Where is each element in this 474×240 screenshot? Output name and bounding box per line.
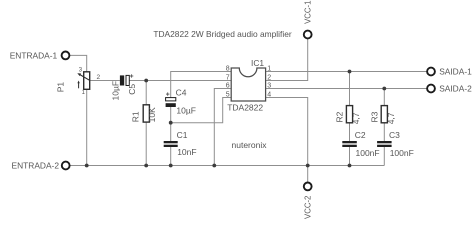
- svg-text:C2: C2: [355, 130, 366, 140]
- svg-text:5: 5: [226, 91, 230, 98]
- svg-text:6: 6: [226, 82, 230, 89]
- svg-text:TDA2822 2W Bridged audio ampli: TDA2822 2W Bridged audio amplifier: [153, 29, 291, 39]
- svg-text:4: 4: [267, 91, 271, 98]
- svg-text:C1: C1: [177, 130, 188, 140]
- svg-text:SAIDA-2: SAIDA-2: [439, 84, 472, 94]
- svg-text:100nF: 100nF: [390, 148, 414, 158]
- svg-text:VCC-2: VCC-2: [303, 196, 312, 219]
- svg-text:10µF: 10µF: [176, 105, 196, 115]
- svg-text:2: 2: [97, 74, 101, 81]
- svg-text:4,7: 4,7: [351, 112, 361, 124]
- svg-text:8: 8: [226, 65, 230, 72]
- svg-text:P1: P1: [55, 82, 65, 93]
- svg-text:4,7: 4,7: [386, 112, 396, 124]
- svg-text:2: 2: [267, 74, 271, 81]
- svg-text:C3: C3: [389, 130, 400, 140]
- svg-text:nuteronix: nuteronix: [232, 140, 268, 150]
- svg-text:IC1: IC1: [251, 58, 264, 68]
- svg-text:10K: 10K: [147, 107, 157, 122]
- svg-text:TDA2822: TDA2822: [227, 103, 263, 113]
- svg-text:10nF: 10nF: [177, 147, 196, 157]
- svg-text:10µF: 10µF: [110, 81, 120, 101]
- svg-text:R2: R2: [335, 111, 345, 122]
- svg-text:100nF: 100nF: [356, 148, 380, 158]
- svg-text:7: 7: [226, 74, 230, 81]
- svg-text:ENTRADA-2: ENTRADA-2: [12, 160, 60, 170]
- svg-text:R1: R1: [130, 111, 140, 122]
- svg-text:ENTRADA-1: ENTRADA-1: [10, 50, 58, 60]
- svg-text:C4: C4: [176, 87, 187, 97]
- svg-text:1: 1: [267, 65, 271, 72]
- svg-text:3: 3: [267, 82, 271, 89]
- svg-text:R3: R3: [370, 111, 380, 122]
- svg-text:SAIDA-1: SAIDA-1: [439, 67, 472, 77]
- svg-text:C5: C5: [127, 84, 137, 95]
- svg-text:VCC-1: VCC-1: [303, 0, 312, 23]
